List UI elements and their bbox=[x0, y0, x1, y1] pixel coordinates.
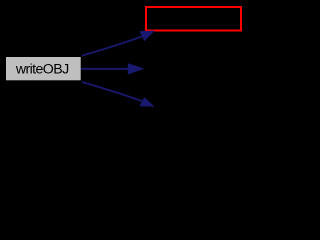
edge writeOBJ -> middle node (wire) bbox=[81, 68, 129, 70]
arrowhead of top edge bbox=[140, 31, 155, 42]
arrowhead of bottom edge bbox=[140, 97, 155, 107]
node writeOBJ (grey filled box) bbox=[6, 57, 81, 80]
arrowhead of middle edge bbox=[128, 63, 144, 74]
svg-text:writeOBJ: writeOBJ bbox=[15, 62, 69, 78]
edge writeOBJ -> bottom node (wire) bbox=[82, 82, 142, 101]
node truncated callee (red outlined box, empty on black) bbox=[146, 7, 241, 31]
edge writeOBJ -> top node (wire) bbox=[82, 37, 142, 56]
